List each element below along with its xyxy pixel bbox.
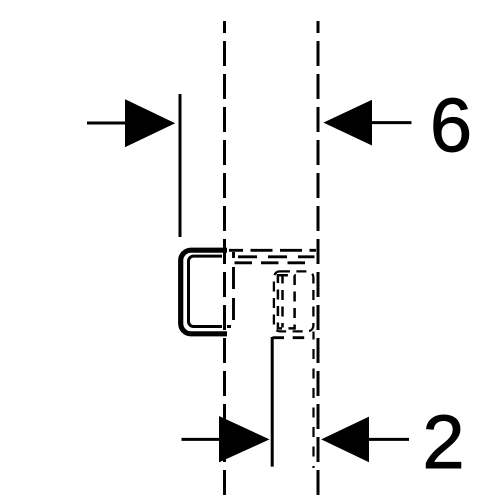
right wall dashed line [317,21,320,496]
hidden edge line below fastener (short dashes) [312,332,314,469]
bottom-left dimension arrow (points right) [182,416,270,462]
svg-text:6: 6 [430,84,472,169]
top-right dimension arrow (points left) [323,100,411,146]
top solid reference line [179,94,182,237]
top-left dimension arrow (points right) [87,99,175,147]
hidden fastener inner box (dashed) [278,275,295,328]
svg-text:2: 2 [422,400,464,485]
hidden fastener outer rounded box (dashed) [274,271,314,331]
C-profile rail inner outline (solid) [189,256,223,326]
hidden top line A (outer, dashed) [229,249,316,252]
hidden top line B (inner, dashed) [233,255,315,258]
bottom-right dimension arrow (points left) [321,417,409,463]
bottom solid reference line [271,337,274,467]
hidden fastener slot left line (dashed) [281,277,284,328]
hidden bottom line E (dashed) [273,336,311,339]
C-profile rail outer outline (solid) [181,250,227,334]
hidden top line C (dashed) [234,261,311,264]
left wall dashed line [223,21,226,496]
hidden vertical with corner (dashed) [227,252,234,327]
